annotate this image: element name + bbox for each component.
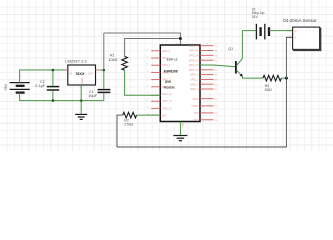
svg-text:GPIO_15: GPIO_15 <box>189 70 199 72</box>
wire top rail 1 <box>104 33 181 39</box>
svg-text:GPIO_5: GPIO_5 <box>162 72 171 74</box>
wire battery+ to regulator IN rail <box>20 70 68 83</box>
svg-text:S-: S- <box>294 38 297 40</box>
left pin stubs <box>151 51 160 115</box>
pin OUT stub <box>96 69 100 71</box>
svg-text:24V: 24V <box>252 15 259 19</box>
svg-text:IN: IN <box>69 71 72 75</box>
svg-text:0.1µF: 0.1µF <box>35 84 45 88</box>
wire V1 left to collector <box>242 30 256 32</box>
svg-text:GPIO_12: GPIO_12 <box>189 60 199 62</box>
svg-text:GPIO_16: GPIO_16 <box>162 108 172 110</box>
svg-text:GPIO_4: GPIO_4 <box>162 65 171 67</box>
wire Q1 emitter to R3 <box>242 76 263 78</box>
wire module pin to Q1 base <box>200 65 235 67</box>
svg-text:78XX: 78XX <box>75 72 85 76</box>
svg-text:ADC: ADC <box>162 114 167 117</box>
svg-text:GPIO_15: GPIO_15 <box>162 101 172 103</box>
svg-text:GPIO_13: GPIO_13 <box>162 87 172 89</box>
svg-text:10kΩ: 10kΩ <box>108 58 117 62</box>
left pin labels <box>162 51 172 118</box>
wire VCC net gray: riser from OUT node <box>103 33 105 70</box>
wire C2 top <box>52 70 54 86</box>
wire R1 bottom to module pin GPIO <box>125 70 161 95</box>
svg-text:TXD: TXD <box>194 113 199 115</box>
svg-text:GPIO_3: GPIO_3 <box>190 75 199 77</box>
svg-text:GPIO_14: GPIO_14 <box>162 94 172 96</box>
svg-text:GPIO_14: GPIO_14 <box>189 55 199 57</box>
svg-text:OUT: OUT <box>88 71 94 75</box>
svg-text:WIFI_TX: WIFI_TX <box>189 46 199 48</box>
svg-text:GPIO_13: GPIO_13 <box>189 65 199 67</box>
sensor pin 1 stub <box>286 30 292 32</box>
pin IN stub <box>64 69 68 71</box>
grid (decorative) <box>0 0 333 151</box>
svg-text:10µF: 10µF <box>88 94 97 98</box>
right pin labels <box>189 46 199 122</box>
right pin numbers <box>215 46 218 122</box>
capacitor C2 <box>47 87 59 90</box>
svg-text:GPIO_1: GPIO_1 <box>190 80 199 82</box>
module GND pin wire down <box>179 122 181 135</box>
svg-text:50Ω: 50Ω <box>265 88 272 92</box>
pin GND stub <box>80 85 82 88</box>
svg-text:SDIO_3: SDIO_3 <box>190 89 199 91</box>
capacitor C1 <box>98 90 111 93</box>
ground symbol (module) <box>173 136 187 141</box>
svg-text:04-20mA Sensor: 04-20mA Sensor <box>283 18 317 23</box>
wire OUT to node <box>100 69 104 71</box>
node: C2 bottom junction <box>52 99 55 102</box>
battery BAT1 +5V <box>10 83 30 93</box>
wire regulator GND down <box>80 85 82 114</box>
resistor R1 10k <box>122 56 128 70</box>
wire R2 left down to bottom rail <box>117 115 123 147</box>
svg-text:GND: GND <box>80 78 84 84</box>
wire C1 bottom <box>103 93 105 100</box>
node: R3 sensor junction <box>285 77 288 80</box>
svg-text:GPIO_12: GPIO_12 <box>162 80 172 82</box>
wire drop to module top pin <box>179 39 181 46</box>
node: C2 top junction <box>52 69 55 72</box>
wire battery- bottom rail <box>20 93 104 101</box>
svg-text:GND: GND <box>193 120 198 122</box>
sensor pin 2 stub <box>286 36 292 38</box>
wire C2 bottom <box>52 91 54 101</box>
wire R3 right to junction <box>281 77 286 79</box>
svg-text:SDIO_2: SDIO_2 <box>190 84 199 86</box>
wire R2 right to module pin ADC <box>136 114 160 116</box>
svg-text:LM2937 3.3: LM2937 3.3 <box>65 59 87 64</box>
svg-text:GND: GND <box>182 122 184 127</box>
wire top rail 2 from R1 <box>125 39 181 57</box>
wire C1 top <box>103 70 105 89</box>
node: regulator GND junction <box>80 99 83 102</box>
svg-text:SCLK: SCLK <box>192 99 198 101</box>
ESP-12 module U1 <box>160 45 200 122</box>
wire sensor pin 2 down through junction to bottom rail <box>117 37 292 147</box>
svg-text:WIFI_RX: WIFI_RX <box>189 51 199 53</box>
svg-text:GPIO_0: GPIO_0 <box>162 51 171 53</box>
left pin numbers <box>147 49 150 116</box>
wire V1 right to sensor pin 1 <box>269 30 292 32</box>
voltage regulator U2 LM2937 3.3 <box>65 59 95 85</box>
svg-text:+5V: +5V <box>4 84 8 91</box>
resistor R2 27k <box>123 112 137 118</box>
svg-text:GPIO_2: GPIO_2 <box>162 58 171 60</box>
svg-text:MTDO: MTDO <box>192 106 199 108</box>
wire Q1 collector up to V1 <box>241 31 243 59</box>
ground symbol (regulator) <box>75 114 87 119</box>
node: OUT junction <box>103 69 106 72</box>
svg-text:27kΩ: 27kΩ <box>124 122 133 126</box>
svg-text:Q1: Q1 <box>228 47 233 51</box>
node: top rail junction <box>179 37 182 40</box>
resistor R3 50 <box>263 75 281 81</box>
right pin stubs sparse group <box>200 99 214 120</box>
right pin stubs dense group <box>200 46 214 89</box>
